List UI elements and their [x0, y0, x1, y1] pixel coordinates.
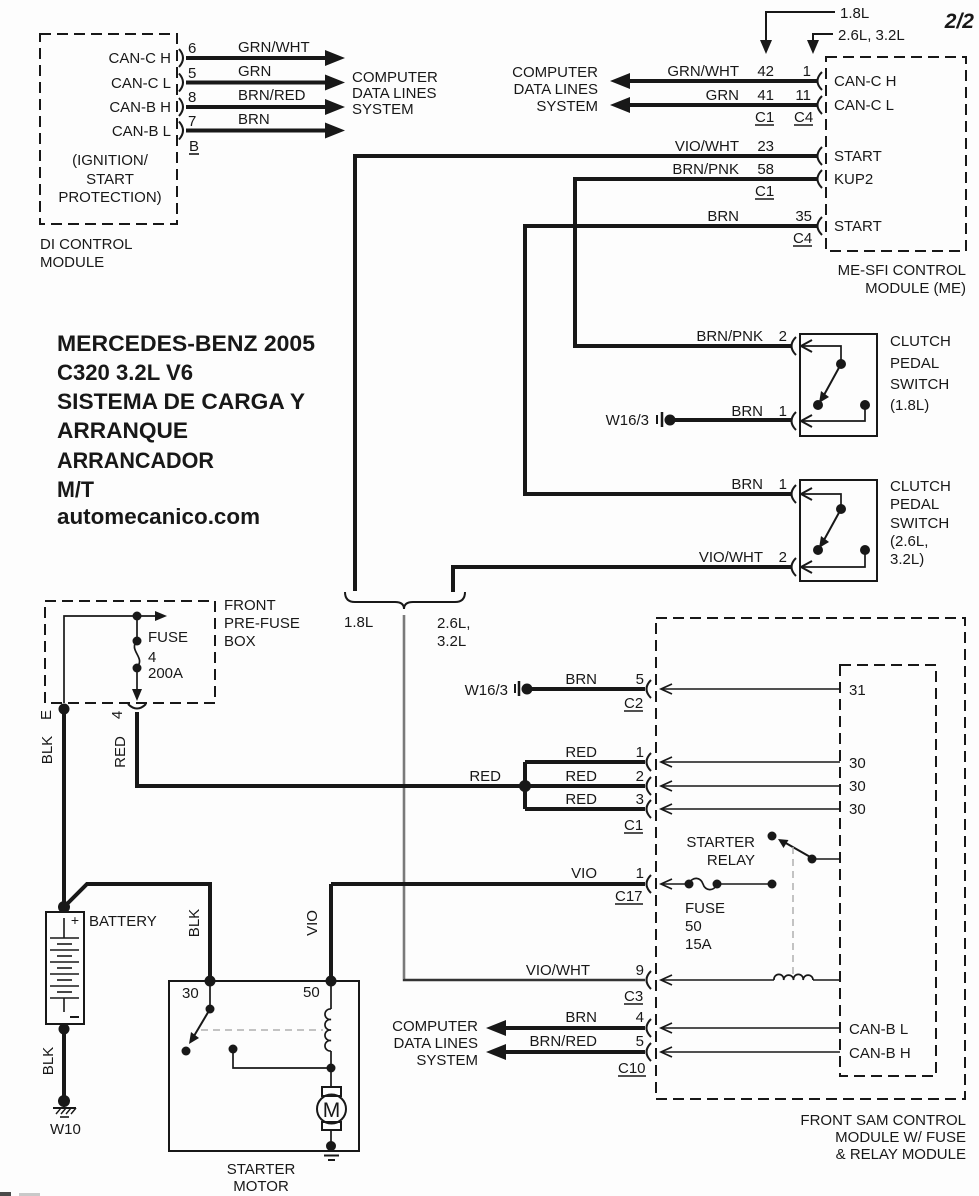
- connector label C1 (SAM): [624, 817, 643, 834]
- connector label C1: [755, 109, 774, 126]
- svg-text:58: 58: [757, 161, 774, 178]
- svg-text:C320 3.2L V6: C320 3.2L V6: [57, 360, 193, 385]
- svg-text:COMPUTER: COMPUTER: [392, 1018, 478, 1035]
- svg-text:MODULE: MODULE: [40, 254, 104, 271]
- svg-text:DI CONTROL: DI CONTROL: [40, 236, 133, 253]
- svg-text:CLUTCH: CLUTCH: [890, 333, 951, 350]
- svg-text:BATTERY: BATTERY: [89, 913, 157, 930]
- svg-text:BRN/PNK: BRN/PNK: [672, 161, 739, 178]
- svg-text:BRN: BRN: [238, 111, 270, 128]
- svg-text:1: 1: [803, 63, 811, 80]
- ground W16/3 (SAM pin5): [465, 681, 533, 699]
- svg-text:W10: W10: [50, 1121, 81, 1138]
- svg-text:CAN-B H: CAN-B H: [849, 1045, 911, 1062]
- svg-text:GRN: GRN: [238, 63, 271, 80]
- connector arrow clutch1 pin1: [801, 415, 812, 427]
- svg-text:VIO/WHT: VIO/WHT: [675, 138, 739, 155]
- fuse F4 200A: [132, 616, 142, 701]
- label RED 2: [565, 768, 597, 785]
- svg-text:BRN/PNK: BRN/PNK: [696, 328, 763, 345]
- svg-text:11: 11: [795, 87, 811, 104]
- label RED 1: [565, 744, 597, 761]
- svg-text:FUSE: FUSE: [148, 629, 188, 646]
- ground (starter motor): [319, 1151, 343, 1160]
- connector label C3: [624, 988, 643, 1005]
- callout 2.6L 3.2L arrow: [807, 27, 905, 54]
- svg-text:CAN-B L: CAN-B L: [112, 123, 171, 140]
- svg-text:1.8L: 1.8L: [840, 5, 869, 22]
- wire BRN START 35: [525, 226, 818, 494]
- DI box inner caption: [58, 152, 161, 206]
- battery caption: [89, 913, 157, 930]
- connector arc pin1 C17: [647, 875, 652, 893]
- brace 1.8L / 2.6L 3.2L: [345, 592, 465, 609]
- label 1.8L (brace): [344, 614, 373, 631]
- pre-fuse internal wire: [64, 611, 167, 703]
- svg-text:DATA LINES: DATA LINES: [352, 85, 436, 102]
- svg-text:41: 41: [757, 87, 774, 104]
- wire GRN from pin 5: [186, 75, 345, 91]
- label BLK (left wire): [39, 736, 56, 764]
- clutch pedal switch 1.8L box: [800, 334, 877, 436]
- pin number 8: [188, 89, 196, 106]
- label VIO/WHT (pin9): [526, 962, 590, 979]
- svg-text:+: +: [71, 912, 79, 928]
- connector label B: [189, 138, 199, 155]
- wire BRN from pin 7: [186, 123, 345, 139]
- label BRN (35): [707, 208, 739, 225]
- ME pin START label: [834, 148, 882, 165]
- label BRN (pin4): [565, 1009, 597, 1026]
- ground W16/3 (clutch): [606, 412, 676, 429]
- link pin4 CAN-B L: [661, 1023, 840, 1033]
- pin CAN-C H label: [109, 50, 172, 67]
- connector arc clutch1 pin1: [792, 412, 797, 430]
- motor M: [317, 1068, 346, 1151]
- connector arc CAN-C L: [818, 96, 823, 114]
- svg-text:C4: C4: [794, 109, 813, 126]
- label VIO/WHT: [675, 138, 739, 155]
- svg-text:23: 23: [757, 138, 774, 155]
- inner pin 30b: [849, 778, 866, 795]
- svg-text:BLK: BLK: [39, 736, 56, 764]
- svg-text:BRN/RED: BRN/RED: [529, 1033, 597, 1050]
- node pin50 dot: [326, 976, 337, 987]
- connector arc pin1: [647, 753, 652, 771]
- wire BLK battery to node E: [62, 709, 66, 908]
- svg-text:START: START: [86, 171, 134, 188]
- fuse 50 label: [685, 900, 725, 953]
- pin 1 clutch switch 2: [779, 476, 787, 493]
- connector arc pin 8: [179, 98, 183, 116]
- connector arc pin5 C10: [647, 1043, 652, 1061]
- svg-text:BRN: BRN: [565, 671, 597, 688]
- svg-text:automecanico.com: automecanico.com: [57, 504, 260, 529]
- connector arc pin3: [647, 800, 652, 818]
- svg-text:FRONT SAM CONTROL: FRONT SAM CONTROL: [800, 1112, 966, 1129]
- connector arc under pre-fuse box: [128, 704, 146, 709]
- svg-text:1: 1: [779, 476, 787, 493]
- label GRN/WHT: [667, 63, 739, 80]
- svg-text:30: 30: [182, 985, 199, 1002]
- svg-text:CAN-C L: CAN-C L: [111, 75, 171, 92]
- pin 1 (C1): [636, 744, 644, 761]
- label E: [38, 710, 55, 720]
- svg-text:START: START: [834, 218, 882, 235]
- svg-text:RELAY: RELAY: [707, 852, 755, 869]
- svg-text:VIO: VIO: [304, 910, 321, 936]
- svg-text:RED: RED: [565, 791, 597, 808]
- pin 50 label: [303, 984, 320, 1001]
- pin number 7: [188, 113, 196, 130]
- svg-text:ME-SFI CONTROL: ME-SFI CONTROL: [838, 262, 966, 279]
- svg-text:C1: C1: [755, 183, 774, 200]
- connector arrow clutch1 pin2: [801, 340, 812, 352]
- pin 11: [795, 87, 811, 104]
- starter switch contact wire: [229, 1045, 336, 1073]
- svg-text:VIO: VIO: [571, 865, 597, 882]
- connector arc START 23: [818, 147, 823, 165]
- relay K1 switch: [768, 832, 841, 864]
- pin 3 (C1): [636, 791, 644, 808]
- pin 42: [757, 63, 774, 80]
- label RED 3: [565, 791, 597, 808]
- node battery positive dot: [58, 901, 70, 913]
- label BRN/PNK at clutch switch 1: [696, 328, 763, 345]
- connector arc CAN-C H: [818, 72, 823, 90]
- link pin3 to 30: [661, 804, 840, 814]
- svg-text:CAN-C H: CAN-C H: [109, 50, 172, 67]
- SAM inner module box: [840, 665, 936, 1076]
- connector arrow clutch2 pin2: [801, 561, 812, 573]
- connector label C10: [618, 1060, 646, 1077]
- svg-text:CAN-B H: CAN-B H: [109, 99, 171, 116]
- svg-text:GRN/WHT: GRN/WHT: [238, 39, 310, 56]
- svg-text:1: 1: [779, 403, 787, 420]
- svg-text:31: 31: [849, 682, 866, 699]
- svg-text:MOTOR: MOTOR: [233, 1178, 289, 1195]
- svg-text:5: 5: [188, 65, 196, 82]
- label BRN/PNK: [672, 161, 739, 178]
- connector label C4 (START 35): [793, 230, 812, 247]
- starter motor caption: [227, 1161, 296, 1195]
- fuse 50 15A: [661, 878, 777, 889]
- svg-text:ARRANQUE: ARRANQUE: [57, 418, 188, 443]
- connector arc pin2: [647, 777, 652, 795]
- label W10: [50, 1121, 81, 1138]
- pin 5 (C2): [636, 671, 644, 688]
- connector label C1 (KUP2): [755, 183, 774, 200]
- svg-text:C1: C1: [624, 817, 643, 834]
- svg-text:FRONT: FRONT: [224, 597, 276, 614]
- svg-text:15A: 15A: [685, 936, 712, 953]
- svg-text:2/2: 2/2: [944, 10, 975, 33]
- node pin30 dot: [205, 976, 216, 987]
- title block: [57, 331, 315, 529]
- clutch pedal switch 2.6L 3.2L box: [800, 480, 877, 581]
- svg-text:4: 4: [109, 711, 126, 719]
- connector arc pin4: [647, 1019, 652, 1037]
- svg-text:VIO/WHT: VIO/WHT: [526, 962, 590, 979]
- svg-text:RED: RED: [565, 768, 597, 785]
- wire BRN to W16/3: [674, 418, 791, 422]
- wire label GRN: [238, 63, 271, 80]
- clutch switch 2 internal: [803, 494, 870, 567]
- starter motor box: [169, 981, 359, 1151]
- svg-text:30: 30: [849, 778, 866, 795]
- wire BLK battery to starter 30: [64, 884, 210, 981]
- svg-text:SWITCH: SWITCH: [890, 376, 949, 393]
- svg-text:PROTECTION): PROTECTION): [58, 189, 161, 206]
- pin number 6: [188, 40, 196, 57]
- pre-fuse box caption: [224, 597, 300, 650]
- svg-text:RED: RED: [469, 768, 501, 785]
- connector label C17: [615, 888, 643, 905]
- svg-text:C17: C17: [615, 888, 643, 905]
- label BRN (pin5): [565, 671, 597, 688]
- svg-text:BRN/RED: BRN/RED: [238, 87, 306, 104]
- wire GRN to computer data lines: [610, 97, 818, 113]
- inner pin 30a: [849, 755, 866, 772]
- svg-text:DATA LINES: DATA LINES: [514, 81, 598, 98]
- svg-text:42: 42: [757, 63, 774, 80]
- node computer data lines (bottom): [392, 1018, 478, 1069]
- svg-text:(2.6L,: (2.6L,: [890, 533, 928, 550]
- svg-text:SYSTEM: SYSTEM: [352, 101, 414, 118]
- pin 58: [757, 161, 774, 178]
- SAM caption: [800, 1112, 966, 1163]
- label GRN: [706, 87, 739, 104]
- ground W10: [53, 1095, 76, 1117]
- svg-text:(IGNITION/: (IGNITION/: [72, 152, 149, 169]
- relay link dashed: [792, 847, 794, 974]
- pin 1 (C17): [636, 865, 644, 882]
- page label 2/2: [944, 10, 975, 33]
- starter switch: [182, 981, 215, 1056]
- label BRN at clutch switch 2: [731, 476, 763, 493]
- svg-text:5: 5: [636, 671, 644, 688]
- connector arrow clutch2 pin1: [801, 488, 812, 500]
- connector arc pin 5: [179, 74, 183, 92]
- pin 2 clutch switch 2: [779, 549, 787, 566]
- svg-text:KUP2: KUP2: [834, 171, 873, 188]
- svg-text:SISTEMA DE CARGA Y: SISTEMA DE CARGA Y: [57, 389, 305, 414]
- wire VIO/WHT pin9 C3: [404, 979, 645, 980]
- label BLK (ground wire): [40, 1047, 57, 1075]
- starter solenoid link dashed: [201, 1029, 323, 1031]
- label VIO (pin1): [571, 865, 597, 882]
- connector arc clutch1 pin2: [792, 337, 797, 355]
- wire BRN pin4: [486, 1020, 645, 1036]
- label BLK (starter wire): [186, 909, 203, 937]
- pin 41: [757, 87, 774, 104]
- wire BRN pin5 C2: [531, 687, 645, 691]
- svg-text:MERCEDES-BENZ 2005: MERCEDES-BENZ 2005: [57, 331, 315, 356]
- connector arc pin 7: [179, 122, 183, 140]
- svg-text:8: 8: [188, 89, 196, 106]
- pin 4 (C10): [636, 1009, 644, 1026]
- svg-text:4: 4: [636, 1009, 644, 1026]
- pin 4 label (rotated): [109, 711, 126, 719]
- connector arc pin 6: [179, 49, 183, 67]
- svg-text:W16/3: W16/3: [465, 682, 508, 699]
- wire RED branch: [525, 762, 645, 809]
- wire label BRN: [238, 111, 270, 128]
- svg-text:3: 3: [636, 791, 644, 808]
- starter relay caption: [686, 834, 755, 869]
- wire BRN/PNK KUP2: [575, 179, 818, 346]
- svg-text:SWITCH: SWITCH: [890, 515, 949, 532]
- node COMPUTER DATA LINES SYSTEM (top left): [352, 69, 438, 118]
- link pin5 CAN-B H: [661, 1047, 840, 1057]
- inner pin CAN-B H: [849, 1045, 911, 1062]
- svg-text:C3: C3: [624, 988, 643, 1005]
- svg-text:1: 1: [636, 744, 644, 761]
- svg-text:GRN/WHT: GRN/WHT: [667, 63, 739, 80]
- svg-text:BOX: BOX: [224, 633, 256, 650]
- pin 1 clutch switch 1: [779, 403, 787, 420]
- svg-text:C10: C10: [618, 1060, 646, 1077]
- inner pin 30c: [849, 801, 866, 818]
- pin CAN-C L label: [111, 75, 171, 92]
- svg-text:3.2L: 3.2L: [437, 633, 466, 650]
- watermark fragment: [0, 1192, 40, 1196]
- ME pin CAN-C H label: [834, 73, 897, 90]
- label VIO (rotated): [304, 910, 321, 936]
- wire VIO/WHT START: [355, 156, 818, 591]
- label BRN/RED (pin5): [529, 1033, 597, 1050]
- wire VIO pin1 C17: [331, 882, 645, 886]
- pin CAN-B H label: [109, 99, 171, 116]
- DI CONTROL MODULE caption: [40, 236, 133, 271]
- svg-text:SYSTEM: SYSTEM: [536, 98, 598, 115]
- DI control module box: [40, 34, 177, 224]
- svg-text:FUSE: FUSE: [685, 900, 725, 917]
- svg-text:(1.8L): (1.8L): [890, 397, 929, 414]
- svg-text:C4: C4: [793, 230, 812, 247]
- svg-text:COMPUTER: COMPUTER: [352, 69, 438, 86]
- wire BLK battery to W10: [62, 1024, 66, 1096]
- svg-text:VIO/WHT: VIO/WHT: [699, 549, 763, 566]
- svg-text:C1: C1: [755, 109, 774, 126]
- svg-text:DATA LINES: DATA LINES: [394, 1035, 478, 1052]
- svg-text:START: START: [834, 148, 882, 165]
- connector arc KUP2: [818, 170, 823, 188]
- svg-text:CAN-C H: CAN-C H: [834, 73, 897, 90]
- connector label C2: [624, 695, 643, 712]
- connector arc clutch2 pin2: [792, 558, 797, 576]
- clutch switch 1 internal: [803, 346, 870, 421]
- svg-text:50: 50: [685, 918, 702, 935]
- svg-text:B: B: [189, 138, 199, 155]
- svg-text:W16/3: W16/3: [606, 412, 649, 429]
- inner pin 31: [849, 682, 866, 699]
- svg-text:E: E: [38, 710, 55, 720]
- svg-text:CLUTCH: CLUTCH: [890, 478, 951, 495]
- pin 2 (C1): [636, 768, 644, 785]
- svg-text:ARRANCADOR: ARRANCADOR: [57, 448, 214, 473]
- front SAM control module box: [656, 618, 965, 1099]
- label RED (junction): [469, 768, 501, 785]
- clutch switch 2 caption: [890, 478, 951, 568]
- svg-text:RED: RED: [112, 736, 129, 768]
- svg-text:2: 2: [636, 768, 644, 785]
- svg-text:2.6L, 3.2L: 2.6L, 3.2L: [838, 27, 905, 44]
- svg-text:GRN: GRN: [706, 87, 739, 104]
- wire GRN/WHT to computer data lines: [610, 73, 818, 89]
- node COMPUTER DATA LINES SYSTEM (top right): [512, 64, 598, 115]
- svg-text:C2: C2: [624, 695, 643, 712]
- ME pin KUP2 label: [834, 171, 873, 188]
- svg-text:2.6L,: 2.6L,: [437, 615, 470, 632]
- pin 23: [757, 138, 774, 155]
- wire BRN/RED from pin 8: [186, 99, 345, 115]
- svg-text:6: 6: [188, 40, 196, 57]
- svg-text:9: 9: [636, 962, 644, 979]
- svg-text:4: 4: [148, 649, 156, 666]
- connector arc START 35: [818, 217, 823, 235]
- ME-SFI caption: [838, 262, 966, 297]
- svg-text:M: M: [323, 1099, 341, 1122]
- link pin2 to 30: [661, 781, 840, 791]
- svg-text:1.8L: 1.8L: [344, 614, 373, 631]
- connector arc pin9 C3: [647, 971, 652, 989]
- svg-text:COMPUTER: COMPUTER: [512, 64, 598, 81]
- svg-text:BRN: BRN: [731, 403, 763, 420]
- svg-text:30: 30: [849, 755, 866, 772]
- wire gray 2.6L/3.2L run: [403, 615, 406, 979]
- svg-text:BLK: BLK: [186, 909, 203, 937]
- svg-text:BRN: BRN: [731, 476, 763, 493]
- pin 5 (C10): [636, 1033, 644, 1050]
- node RED junction: [519, 780, 531, 792]
- ME-SFI control module box: [826, 57, 966, 251]
- label BRN clutch1 pin1: [731, 403, 763, 420]
- front pre-fuse box: [45, 601, 215, 703]
- solenoid coil L1: [325, 981, 331, 1068]
- pin number 5: [188, 65, 196, 82]
- svg-text:MODULE W/ FUSE: MODULE W/ FUSE: [835, 1129, 966, 1146]
- svg-text:M/T: M/T: [57, 477, 95, 502]
- svg-text:SYSTEM: SYSTEM: [416, 1052, 478, 1069]
- link pin1 to 30: [661, 757, 840, 767]
- svg-text:CAN-C L: CAN-C L: [834, 97, 894, 114]
- svg-text:35: 35: [795, 208, 812, 225]
- node battery negative dot: [59, 1024, 70, 1035]
- svg-text:& RELAY MODULE: & RELAY MODULE: [836, 1146, 966, 1163]
- label RED (rotated): [112, 736, 129, 768]
- svg-text:50: 50: [303, 984, 320, 1001]
- ME pin CAN-C L label: [834, 97, 894, 114]
- svg-text:PEDAL: PEDAL: [890, 355, 939, 372]
- wire VIO to starter 50: [329, 884, 333, 981]
- wire label GRN/WHT: [238, 39, 310, 56]
- connector arc pin5 C2: [647, 680, 652, 698]
- svg-text:7: 7: [188, 113, 196, 130]
- svg-text:1: 1: [636, 865, 644, 882]
- inner pin CAN-B L: [849, 1021, 908, 1038]
- wire GRN/WHT from pin 6: [186, 50, 345, 66]
- battery B1: [46, 912, 84, 1024]
- svg-text:2: 2: [779, 328, 787, 345]
- pin 35: [795, 208, 812, 225]
- pin 30 label: [182, 985, 199, 1002]
- wire label BRN/RED: [238, 87, 306, 104]
- svg-text:BRN: BRN: [707, 208, 739, 225]
- connector label C4: [794, 109, 813, 126]
- fuse label: [148, 629, 188, 682]
- relay coil: [661, 974, 840, 985]
